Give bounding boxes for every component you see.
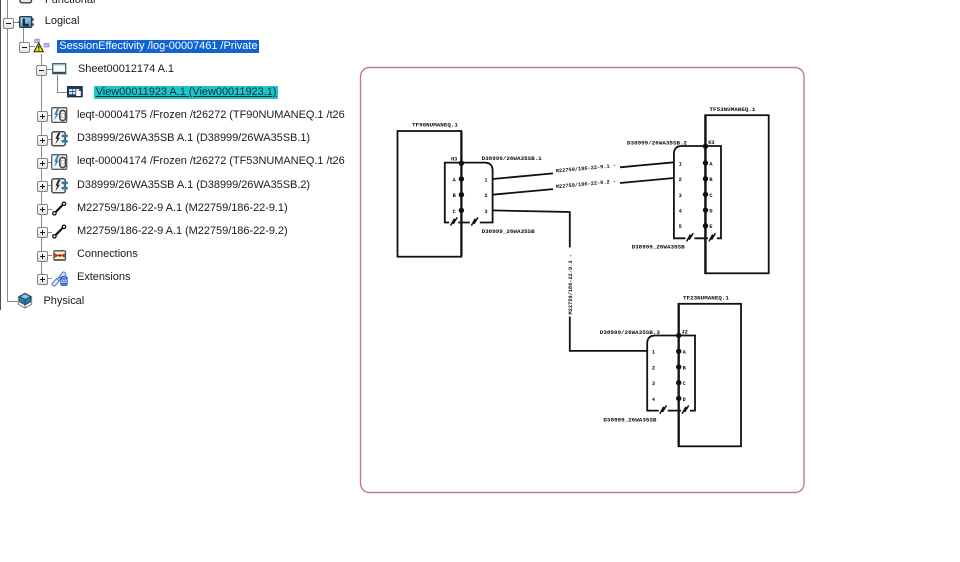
pin 4/D (652, 396, 686, 403)
label TF23NUMANEQ.1 (683, 295, 729, 302)
svg-text:D38999/26WA35SB.2: D38999/26WA35SB.2 (627, 140, 688, 147)
connector D38999/26WA35SB.1 (445, 163, 493, 223)
svg-text:D: D (709, 209, 712, 215)
icon wire (m22759) x2 (51, 201, 67, 216)
icon functional (clipped at top) (19, 0, 33, 4)
connector breaks (659, 406, 690, 414)
wire M22759/186-22-9.3 (493, 210, 648, 351)
svg-text:A: A (453, 177, 457, 183)
svg-text:H3: H3 (451, 157, 457, 163)
icon physical (cube) (17, 292, 33, 309)
label TF90NUMANEQ.1 (412, 122, 458, 129)
pin 2/B (652, 364, 687, 371)
pin K3 (703, 140, 715, 149)
pin 3/C (652, 380, 687, 387)
svg-text:2: 2 (652, 365, 655, 371)
connector breaks (686, 233, 717, 241)
pin 5/E (679, 223, 713, 230)
label D38999_26WA35SB (bottom of U2) (632, 244, 685, 251)
svg-text:D: D (683, 397, 686, 403)
icon extensions (50, 269, 69, 288)
pin 1/A (652, 349, 687, 356)
wire label M22759/186-22-9.3 (568, 254, 574, 314)
schematic sheet border (361, 68, 805, 493)
connector D38999/26WA35SB.2 (674, 146, 721, 238)
equipment TF53NUMANEQ.1 (705, 115, 769, 273)
svg-text:E: E (709, 224, 712, 230)
icon logical (18, 16, 35, 29)
svg-text:D38999_26WA35SB: D38999_26WA35SB (603, 416, 656, 423)
svg-text:A: A (683, 350, 687, 356)
svg-text:M22759/186-22-9.3 -: M22759/186-22-9.3 - (568, 254, 574, 314)
pin 3/C (679, 192, 714, 199)
pin bus TF53 (704, 116, 706, 272)
svg-text:M22759/186-22-9.2 -: M22759/186-22-9.2 - (556, 179, 617, 191)
svg-text:B: B (683, 365, 687, 371)
wire M22759/186-22-9.2 (493, 178, 674, 195)
svg-text:4: 4 (652, 397, 656, 403)
svg-text:2: 2 (484, 193, 487, 199)
equipment TF23NUMANEQ.1 (679, 304, 742, 447)
pin 4/D (679, 207, 713, 214)
pin 1/A (679, 160, 714, 167)
pin B/2 (453, 192, 488, 199)
svg-text:B: B (709, 177, 713, 183)
svg-text:1: 1 (484, 177, 487, 183)
pin bus TF90 (460, 132, 462, 256)
svg-text:TF23NUMANEQ.1: TF23NUMANEQ.1 (683, 295, 729, 302)
svg-text:2: 2 (679, 177, 682, 183)
wire label M22759/186-22-9.1 (556, 163, 617, 175)
svg-text:C: C (683, 381, 687, 387)
pin J2 (676, 330, 688, 339)
svg-text:B: B (453, 193, 457, 199)
pin H3 (451, 157, 464, 166)
svg-text:1: 1 (679, 161, 682, 167)
svg-text:C: C (709, 193, 713, 199)
wire M22759/186-22-9.1 (493, 162, 674, 179)
svg-text:C: C (453, 209, 457, 215)
svg-text:4: 4 (679, 209, 683, 215)
icon view (table) (67, 86, 83, 98)
svg-text:TF90NUMANEQ.1: TF90NUMANEQ.1 (412, 122, 458, 129)
svg-text:K3: K3 (708, 140, 714, 146)
svg-text:3: 3 (679, 193, 682, 199)
left panel border (0, 0, 1, 310)
svg-text:D38999_26WA35SB: D38999_26WA35SB (482, 228, 535, 235)
icon leqt (bolt+lock) x2 (51, 107, 68, 124)
row texts (45, 0, 95, 7)
connector breaks (449, 217, 480, 225)
svg-text:J2: J2 (681, 330, 687, 336)
label D38999/26WA35SB.1 (482, 155, 543, 162)
svg-text:3: 3 (652, 381, 655, 387)
svg-text:D38999/26WA35SB.1: D38999/26WA35SB.1 (482, 155, 543, 162)
icon sheet (52, 63, 67, 75)
svg-text:1: 1 (652, 350, 655, 356)
icon warning + overlays (33, 38, 51, 54)
tree connector lines (7, 0, 8, 302)
label D38999/26WA35SB.2 (627, 140, 688, 147)
svg-text:TF53NUMANEQ.1: TF53NUMANEQ.1 (710, 106, 756, 113)
svg-text:A: A (709, 161, 713, 167)
wire label M22759/186-22-9.2 (556, 179, 617, 191)
expand boxes (3, 18, 14, 29)
connector D38999/26WA35SB.3 (647, 336, 695, 411)
label D38999_26WA35SB (bottom of U3) (603, 416, 656, 423)
icon connections (53, 249, 67, 262)
svg-text:D38999_26WA35SB: D38999_26WA35SB (632, 244, 685, 251)
icon d38999 (bolt doc) x2 (51, 131, 69, 147)
svg-text:5: 5 (679, 224, 682, 230)
label TF53NUMANEQ.1 (710, 106, 756, 113)
svg-text:M22759/186-22-9.1 -: M22759/186-22-9.1 - (556, 163, 617, 175)
pin 2/B (679, 176, 714, 183)
label D38999_26WA35SB (bottom of U1) (482, 228, 535, 235)
svg-text:D38999/26WA35SB.3: D38999/26WA35SB.3 (600, 329, 661, 336)
pin bus TF23 (678, 305, 680, 446)
svg-text:3: 3 (484, 209, 487, 215)
pin C/3 (453, 208, 488, 215)
label D38999/26WA35SB.3 (600, 329, 661, 336)
equipment TF90NUMANEQ.1 (398, 131, 462, 257)
pin A/1 (453, 176, 488, 183)
